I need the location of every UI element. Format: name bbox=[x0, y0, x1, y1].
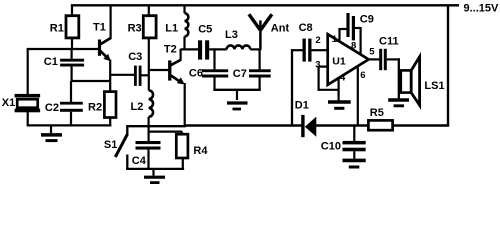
svg-text:R1: R1 bbox=[50, 23, 64, 35]
pin 4 lead bbox=[338, 78, 340, 101]
svg-text:C2: C2 bbox=[45, 102, 59, 114]
pin 6 lead bbox=[357, 66, 359, 126]
svg-text:4: 4 bbox=[340, 72, 346, 83]
capacitor C6 bbox=[202, 49, 228, 90]
wire T2 collector / tank node bbox=[181, 48, 199, 50]
transistor T2 bbox=[168, 49, 185, 127]
svg-text:5: 5 bbox=[369, 47, 375, 58]
svg-text:Ant: Ant bbox=[271, 23, 290, 35]
svg-text:C5: C5 bbox=[198, 24, 212, 36]
ground under X1 node bbox=[41, 126, 62, 141]
pin 3 wire and ground loop bbox=[318, 66, 339, 90]
capacitor C5 bbox=[198, 40, 227, 59]
crystal X1 bbox=[15, 48, 40, 126]
capacitor C8 bbox=[303, 39, 328, 62]
capacitor C10 bbox=[343, 126, 366, 159]
svg-text:D1: D1 bbox=[295, 99, 309, 111]
wire C6/C7 ground bus bbox=[213, 89, 260, 91]
svg-text:R5: R5 bbox=[370, 107, 384, 119]
resistor R4 bbox=[176, 132, 188, 170]
svg-text:X1: X1 bbox=[2, 97, 15, 109]
resistor R5 bbox=[368, 120, 392, 130]
svg-text:3: 3 bbox=[315, 60, 320, 71]
antenna Ant bbox=[249, 14, 272, 50]
capacitor C1 bbox=[60, 49, 84, 82]
wire main bottom rail S1 to D1 bbox=[126, 125, 186, 127]
capacitor C11 bbox=[379, 49, 400, 70]
svg-text:C11: C11 bbox=[379, 36, 399, 48]
inductor L3 bbox=[227, 45, 261, 49]
wire T2 base bbox=[149, 69, 169, 71]
svg-text:T2: T2 bbox=[164, 43, 177, 55]
switch S1 bbox=[115, 126, 127, 170]
wire bottom ground bus (C4/R4) bbox=[126, 168, 184, 170]
svg-text:6: 6 bbox=[360, 70, 365, 81]
ground under LS1 bbox=[388, 100, 409, 106]
svg-text:LS1: LS1 bbox=[424, 80, 444, 92]
svg-text:C8: C8 bbox=[299, 22, 313, 34]
svg-text:C6: C6 bbox=[189, 67, 203, 79]
inductor L2 bbox=[149, 90, 153, 141]
wire T1 emitter to C3 bbox=[109, 74, 134, 76]
diode D1 bbox=[301, 115, 316, 137]
wire T1 emitter node bbox=[71, 80, 111, 82]
capacitor C3 bbox=[134, 66, 150, 86]
capacitor C2 bbox=[60, 81, 83, 126]
pin 5 output wire bbox=[367, 58, 379, 60]
inductor L1 bbox=[185, 5, 189, 50]
pin 1 lead bbox=[338, 28, 346, 42]
wire R5 to supply riser bbox=[393, 124, 450, 127]
capacitor C7 bbox=[249, 69, 271, 90]
wire C7 top lead bbox=[259, 50, 261, 69]
svg-text:C10: C10 bbox=[321, 141, 341, 153]
svg-text:L3: L3 bbox=[225, 29, 238, 41]
svg-text:L1: L1 bbox=[165, 23, 178, 35]
resistor R2 bbox=[104, 92, 116, 127]
svg-text:C3: C3 bbox=[128, 51, 142, 63]
wire T1 base node bbox=[27, 48, 99, 50]
wire top supply rail bbox=[71, 4, 459, 6]
svg-text:8: 8 bbox=[351, 40, 356, 51]
svg-text:C1: C1 bbox=[44, 56, 58, 68]
transistor T1 bbox=[98, 5, 111, 92]
capacitor C4 bbox=[136, 141, 161, 170]
svg-text:S1: S1 bbox=[104, 139, 117, 151]
wire rail to C8 riser bbox=[291, 49, 293, 126]
op-amp U1 bbox=[328, 34, 369, 85]
wire bottom-left ground node bbox=[27, 124, 112, 126]
svg-text:R4: R4 bbox=[193, 145, 208, 157]
svg-text:2: 2 bbox=[315, 35, 320, 46]
svg-text:T1: T1 bbox=[93, 22, 106, 34]
svg-text:R3: R3 bbox=[128, 23, 142, 35]
capacitor C9 bbox=[346, 13, 360, 56]
svg-text:L2: L2 bbox=[131, 101, 144, 113]
svg-text:U1: U1 bbox=[332, 56, 346, 68]
ground under C6/C7 bbox=[227, 91, 248, 110]
svg-text:1: 1 bbox=[332, 34, 338, 45]
svg-text:9...15V: 9...15V bbox=[464, 3, 500, 15]
resistor R3 bbox=[143, 5, 156, 91]
svg-text:C4: C4 bbox=[132, 155, 147, 167]
svg-text:R2: R2 bbox=[88, 102, 102, 114]
wire supply riser bbox=[447, 5, 449, 126]
ground under C10 bbox=[343, 160, 366, 167]
svg-text:C7: C7 bbox=[233, 68, 247, 80]
svg-text:C9: C9 bbox=[360, 14, 374, 26]
loudspeaker LS1 bbox=[399, 57, 420, 105]
wire L2/C4 node to R4 bbox=[149, 131, 182, 133]
resistor R1 bbox=[66, 5, 79, 50]
wire D1 anode to R5 bbox=[315, 124, 369, 127]
ground under U1 pin 4 bbox=[328, 102, 351, 108]
ground under C4 bbox=[144, 170, 165, 183]
